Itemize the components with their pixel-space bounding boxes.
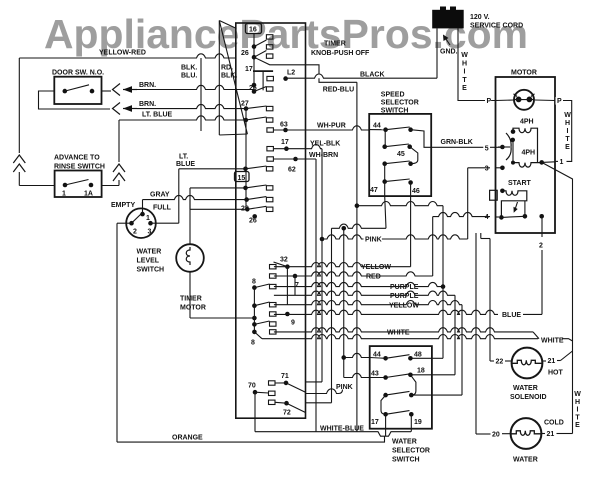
contact row white1 <box>270 322 277 326</box>
svg-text:63: 63 <box>280 122 288 129</box>
svg-text:8: 8 <box>252 279 256 286</box>
svg-text:GRAY: GRAY <box>150 192 170 199</box>
node 8 lower <box>270 330 277 334</box>
wire motor 3 <box>483 164 489 172</box>
svg-text:T: T <box>462 77 467 84</box>
svg-text:15: 15 <box>238 175 246 182</box>
speed contact 5 <box>500 145 505 150</box>
svg-text:GRN-BLK: GRN-BLK <box>441 139 473 146</box>
node 17 <box>252 55 257 60</box>
svg-text:26: 26 <box>249 218 257 225</box>
svg-text:SPEED: SPEED <box>381 92 405 99</box>
wire yellow-red top <box>19 54 236 58</box>
svg-text:H: H <box>565 120 570 127</box>
wire blk-blu riser <box>200 58 202 131</box>
node L2 <box>283 76 288 81</box>
motor armature circle <box>514 90 534 110</box>
contact row 28 <box>245 207 250 212</box>
svg-text:45: 45 <box>397 151 405 158</box>
timer switch bank outline <box>236 23 306 418</box>
svg-text:7: 7 <box>295 282 299 289</box>
wire black horizontal <box>286 74 437 78</box>
svg-text:I: I <box>567 128 569 135</box>
svg-text:EMPTY: EMPTY <box>111 202 135 209</box>
svg-text:FULL: FULL <box>153 205 172 212</box>
svg-text:22: 22 <box>496 359 504 366</box>
svg-text:SWITCH: SWITCH <box>137 267 165 274</box>
svg-text:120 V.: 120 V. <box>470 14 490 21</box>
wire red-blu riser into 43 <box>356 378 358 432</box>
node 9 <box>270 312 277 316</box>
svg-text:1: 1 <box>146 215 150 222</box>
svg-text:RD.: RD. <box>221 65 233 72</box>
svg-text:E: E <box>462 85 467 92</box>
wire black from plug <box>436 28 438 78</box>
svg-text:T: T <box>575 414 580 421</box>
contact L2 <box>267 76 274 80</box>
svg-text:21: 21 <box>547 431 555 438</box>
svg-text:ADVANCE TO: ADVANCE TO <box>54 155 100 162</box>
svg-text:BLU.: BLU. <box>181 73 197 80</box>
svg-text:W: W <box>574 391 581 398</box>
svg-text:I: I <box>577 407 579 414</box>
wire brn upper to timer <box>137 85 254 89</box>
120V service cord plug <box>432 10 464 29</box>
wire gray: water level 1 up and right to timer <box>143 195 247 199</box>
water selector switch <box>370 346 432 429</box>
svg-text:KNOB-PUSH OFF: KNOB-PUSH OFF <box>311 50 370 57</box>
wire motor 4 <box>483 213 489 221</box>
svg-text:YELLOW: YELLOW <box>361 264 391 271</box>
svg-text:43: 43 <box>371 371 379 378</box>
svg-text:18: 18 <box>417 368 425 375</box>
svg-text:WATER: WATER <box>513 385 538 392</box>
svg-text:COLD: COLD <box>544 420 564 427</box>
wire purple 2 <box>389 292 416 300</box>
svg-text:LT.: LT. <box>179 154 188 161</box>
wire orange bottom <box>117 436 385 442</box>
wire lt blue riser from rinse switch <box>118 120 120 162</box>
svg-text:GND.: GND. <box>440 49 458 56</box>
svg-text:MOTOR: MOTOR <box>511 70 537 77</box>
svg-text:RED-BLU: RED-BLU <box>323 87 355 94</box>
contact full row <box>243 167 248 172</box>
svg-text:17: 17 <box>245 66 253 73</box>
svg-text:SELECTOR: SELECTOR <box>392 448 430 455</box>
svg-text:2: 2 <box>539 243 543 250</box>
svg-text:TIMER: TIMER <box>324 41 346 48</box>
svg-text:E: E <box>575 422 580 429</box>
svg-text:3: 3 <box>148 229 152 236</box>
contact on motor left edge <box>490 190 498 200</box>
wire white diagonal to hot 21 <box>561 351 573 361</box>
wire brn lower to timer <box>137 104 246 108</box>
svg-text:1A: 1A <box>84 191 93 198</box>
wire start contact riser to hot valve <box>481 238 490 240</box>
svg-text:ORANGE: ORANGE <box>172 435 203 442</box>
wire speed 47 riser <box>385 182 386 229</box>
svg-text:WATER: WATER <box>513 457 538 464</box>
wire yel-blk <box>274 145 322 149</box>
wire knob push-off to black <box>254 57 319 74</box>
svg-text:17: 17 <box>371 419 379 426</box>
wire wh-brn <box>267 157 274 161</box>
node 26 lower <box>252 214 257 219</box>
svg-text:BRN.: BRN. <box>139 101 156 108</box>
svg-text:H: H <box>575 399 580 406</box>
contact 17 row <box>267 147 274 151</box>
wire yellow 2 <box>388 301 415 309</box>
wire motor 1 diagonal down right <box>542 162 573 341</box>
svg-text:START: START <box>508 180 532 187</box>
svg-text:T: T <box>565 136 570 143</box>
water solenoid hot <box>512 348 543 379</box>
svg-text:WATER: WATER <box>392 439 417 446</box>
timer rail lower <box>253 288 255 332</box>
svg-text:I: I <box>464 69 466 76</box>
svg-text:LEVEL: LEVEL <box>137 258 160 265</box>
svg-text:PINK: PINK <box>365 237 382 244</box>
chevron+arrow brn lower <box>113 103 121 115</box>
timer motor <box>176 244 204 272</box>
svg-text:PINK: PINK <box>336 384 353 391</box>
timer rail upper <box>253 34 255 92</box>
contact 16 row <box>266 35 273 39</box>
svg-text:21: 21 <box>548 358 556 365</box>
start centrifugal switch <box>499 215 504 220</box>
svg-text:W: W <box>564 112 571 119</box>
wire P right loop to 1 <box>535 99 555 102</box>
svg-text:WH-BRN: WH-BRN <box>309 152 338 159</box>
svg-text:2: 2 <box>133 229 137 236</box>
svg-text:H: H <box>462 60 467 67</box>
svg-text:DOOR SW. N.O.: DOOR SW. N.O. <box>52 70 104 77</box>
svg-text:4PH: 4PH <box>520 119 534 126</box>
svg-text:WHITE: WHITE <box>387 329 410 336</box>
svg-text:BLUE: BLUE <box>502 312 521 319</box>
wire 4th row into timer <box>190 208 247 210</box>
svg-text:4PH: 4PH <box>522 150 536 157</box>
svg-text:SWITCH: SWITCH <box>392 457 420 464</box>
svg-text:47: 47 <box>370 187 378 194</box>
wire timer motor bottom to terminal 8 <box>189 272 191 318</box>
svg-text:P: P <box>557 98 562 105</box>
svg-text:27: 27 <box>241 101 249 108</box>
svg-text:YELLOW-RED: YELLOW-RED <box>99 50 146 57</box>
wire brn upper from door switch <box>102 90 112 92</box>
contact timer row <box>243 186 248 191</box>
svg-text:W: W <box>461 52 468 59</box>
chevron marks left wire <box>13 155 25 163</box>
wire motor 2 <box>541 216 543 237</box>
svg-text:26: 26 <box>241 50 249 57</box>
svg-text:LT. BLUE: LT. BLUE <box>142 112 173 119</box>
svg-text:44: 44 <box>373 123 381 130</box>
contact lt blue row <box>244 118 249 123</box>
wire timer motor top <box>189 188 191 244</box>
terminal 15 box <box>235 172 250 182</box>
wire cold valve riser <box>475 233 477 434</box>
svg-text:P: P <box>487 98 492 105</box>
wire to purple rail <box>357 202 443 206</box>
contact gray row <box>244 197 249 202</box>
wire yellow (32 to 46) <box>360 263 387 271</box>
svg-text:SOLENOID: SOLENOID <box>510 394 547 401</box>
wire red-blu <box>319 78 357 82</box>
timer cam triangle <box>219 21 236 29</box>
wire water level 2 to left rail <box>117 222 132 224</box>
terminal 16 box <box>246 24 262 34</box>
svg-text:SELECTOR: SELECTOR <box>381 100 419 107</box>
node 26 <box>252 44 257 49</box>
svg-text:20: 20 <box>492 431 500 438</box>
T common bar <box>253 70 273 72</box>
svg-text:16: 16 <box>249 27 257 34</box>
wire wh-brn riser <box>315 159 317 432</box>
wire riser to water selector 44 <box>343 228 345 357</box>
svg-text:48: 48 <box>414 352 422 359</box>
node 26 second <box>252 83 257 88</box>
svg-text:28: 28 <box>241 206 249 213</box>
wire white from plug <box>458 28 496 100</box>
svg-text:3: 3 <box>485 165 489 172</box>
svg-text:YEL-BLK: YEL-BLK <box>310 141 340 148</box>
water valve cold <box>511 418 542 449</box>
svg-text:8: 8 <box>251 340 255 347</box>
svg-text:SERVICE CORD: SERVICE CORD <box>470 23 523 30</box>
svg-text:WH-PUR: WH-PUR <box>317 123 346 130</box>
svg-text:1: 1 <box>560 159 564 166</box>
contact rows purple/yellow <box>270 303 277 307</box>
svg-text:19: 19 <box>414 419 422 426</box>
svg-text:9: 9 <box>291 320 295 327</box>
svg-text:HOT: HOT <box>548 370 564 377</box>
svg-text:MOTOR: MOTOR <box>180 305 206 312</box>
svg-text:TIMER: TIMER <box>180 296 202 303</box>
wire door switch loop <box>39 91 111 109</box>
svg-text:BLK.: BLK. <box>181 65 197 72</box>
svg-text:72: 72 <box>283 410 291 417</box>
svg-text:L2: L2 <box>287 70 295 77</box>
svg-text:BLK.: BLK. <box>221 73 237 80</box>
wire left border down to rinse switch <box>18 58 20 153</box>
wire pink <box>320 237 325 242</box>
svg-text:62: 62 <box>288 167 296 174</box>
chevron marks rinse riser <box>113 164 125 172</box>
node 7 <box>270 274 277 278</box>
wire lt blue to timer <box>119 116 246 120</box>
svg-text:BLUE: BLUE <box>176 161 195 168</box>
svg-text:46: 46 <box>412 188 420 195</box>
svg-text:4: 4 <box>485 214 489 221</box>
wire blue <box>501 311 519 319</box>
wire white 2 <box>254 332 262 339</box>
svg-text:WATER: WATER <box>137 249 162 256</box>
wire yel-blk riser <box>321 149 323 382</box>
svg-text:RINSE SWITCH: RINSE SWITCH <box>54 164 105 171</box>
svg-text:17: 17 <box>281 139 289 146</box>
svg-text:32: 32 <box>280 257 288 264</box>
gnd arrow <box>444 36 450 45</box>
svg-text:5: 5 <box>485 145 489 152</box>
svg-text:E: E <box>565 144 570 151</box>
wire red-blu riser long <box>356 82 358 377</box>
wire P left <box>485 97 491 105</box>
wire purple 1 <box>389 283 416 291</box>
svg-text:BRN.: BRN. <box>139 82 156 89</box>
wire red (7 to motor 4) <box>365 273 379 281</box>
svg-text:70: 70 <box>248 383 256 390</box>
contact 63 row <box>267 128 274 132</box>
chevron+arrow brn upper <box>113 84 121 96</box>
wire white 1 <box>386 328 409 336</box>
svg-text:BLACK: BLACK <box>360 72 385 79</box>
wire full: water level 3 right/up to timer <box>151 222 179 224</box>
svg-text:71: 71 <box>281 373 289 380</box>
svg-text:1: 1 <box>62 191 66 198</box>
wire wh-pur to speed selector <box>274 126 369 130</box>
wire left rail down to orange <box>116 223 118 442</box>
timer rail mid <box>245 109 247 210</box>
svg-text:WHITE: WHITE <box>541 337 564 344</box>
svg-text:RED: RED <box>366 274 381 281</box>
